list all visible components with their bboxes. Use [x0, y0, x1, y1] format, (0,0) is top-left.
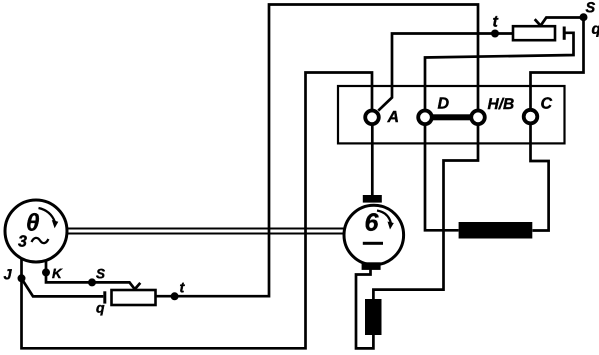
- terminal C: [524, 110, 538, 124]
- svg-text:J: J: [3, 267, 12, 283]
- contact q top bar: [563, 27, 566, 40]
- wire terminal A to machine brush: [371, 125, 374, 195]
- machine 6 (DC): [344, 205, 404, 265]
- wire machine lower brush to resistor R4: [356, 268, 373, 348]
- wire lever from A up to node t: [378, 34, 513, 111]
- svg-text:D: D: [437, 96, 449, 113]
- svg-text:S: S: [585, 0, 595, 16]
- node t bottom: [171, 292, 179, 300]
- svg-text:H/B: H/B: [487, 96, 514, 113]
- shaft double line motor to machine: [68, 229, 345, 234]
- svg-text:6: 6: [364, 209, 379, 237]
- wire rheostat R1 wiper to node S: [535, 18, 584, 26]
- terminal H|B: [471, 111, 485, 125]
- svg-text:K: K: [52, 266, 63, 281]
- node J: [18, 274, 26, 282]
- svg-text:t: t: [179, 280, 185, 296]
- node K: [42, 268, 50, 276]
- svg-text:t: t: [492, 14, 498, 31]
- resistor R4: [365, 299, 382, 335]
- motor M 3-phase: [5, 200, 67, 262]
- svg-text:A: A: [386, 109, 399, 126]
- terminal A: [365, 111, 379, 125]
- wire J to contact q bottom: [22, 279, 104, 297]
- node S top: [580, 13, 588, 21]
- svg-text:q: q: [96, 300, 105, 316]
- wire terminal H|B up over top to bottom node t: [156, 5, 479, 297]
- node t top: [491, 30, 499, 38]
- contact q bottom bar: [103, 291, 106, 303]
- terminal D: [418, 111, 432, 125]
- svg-text:S: S: [96, 266, 105, 281]
- wire terminal D to resistor R3: [425, 125, 459, 230]
- link bar D to H|B: [433, 114, 471, 120]
- machine minus bar: [363, 242, 383, 245]
- svg-text:C: C: [540, 96, 552, 113]
- wire contact q to terminal D: [425, 33, 574, 109]
- svg-text:3: 3: [18, 234, 27, 251]
- wire J to bottom rail to terminal A: [22, 73, 373, 349]
- wire terminal C to resistor R3: [531, 125, 549, 231]
- wire K to S to rheostat R2 wiper: [46, 260, 140, 289]
- svg-text:q: q: [591, 21, 599, 38]
- rheostat R1 body: [513, 26, 555, 40]
- rheostat R2 body: [112, 290, 156, 305]
- machine lower brush bar: [362, 262, 381, 270]
- machine upper brush bar: [363, 195, 382, 203]
- wire node S down to terminal C: [531, 17, 584, 109]
- svg-text:θ: θ: [26, 210, 39, 237]
- motor rotation arrow: [39, 208, 56, 222]
- terminal block: [338, 86, 565, 143]
- wire terminal H|B to resistor R4: [373, 125, 478, 299]
- node S bottom: [88, 278, 96, 286]
- resistor R3: [459, 222, 533, 239]
- machine rotation arrow: [377, 211, 391, 224]
